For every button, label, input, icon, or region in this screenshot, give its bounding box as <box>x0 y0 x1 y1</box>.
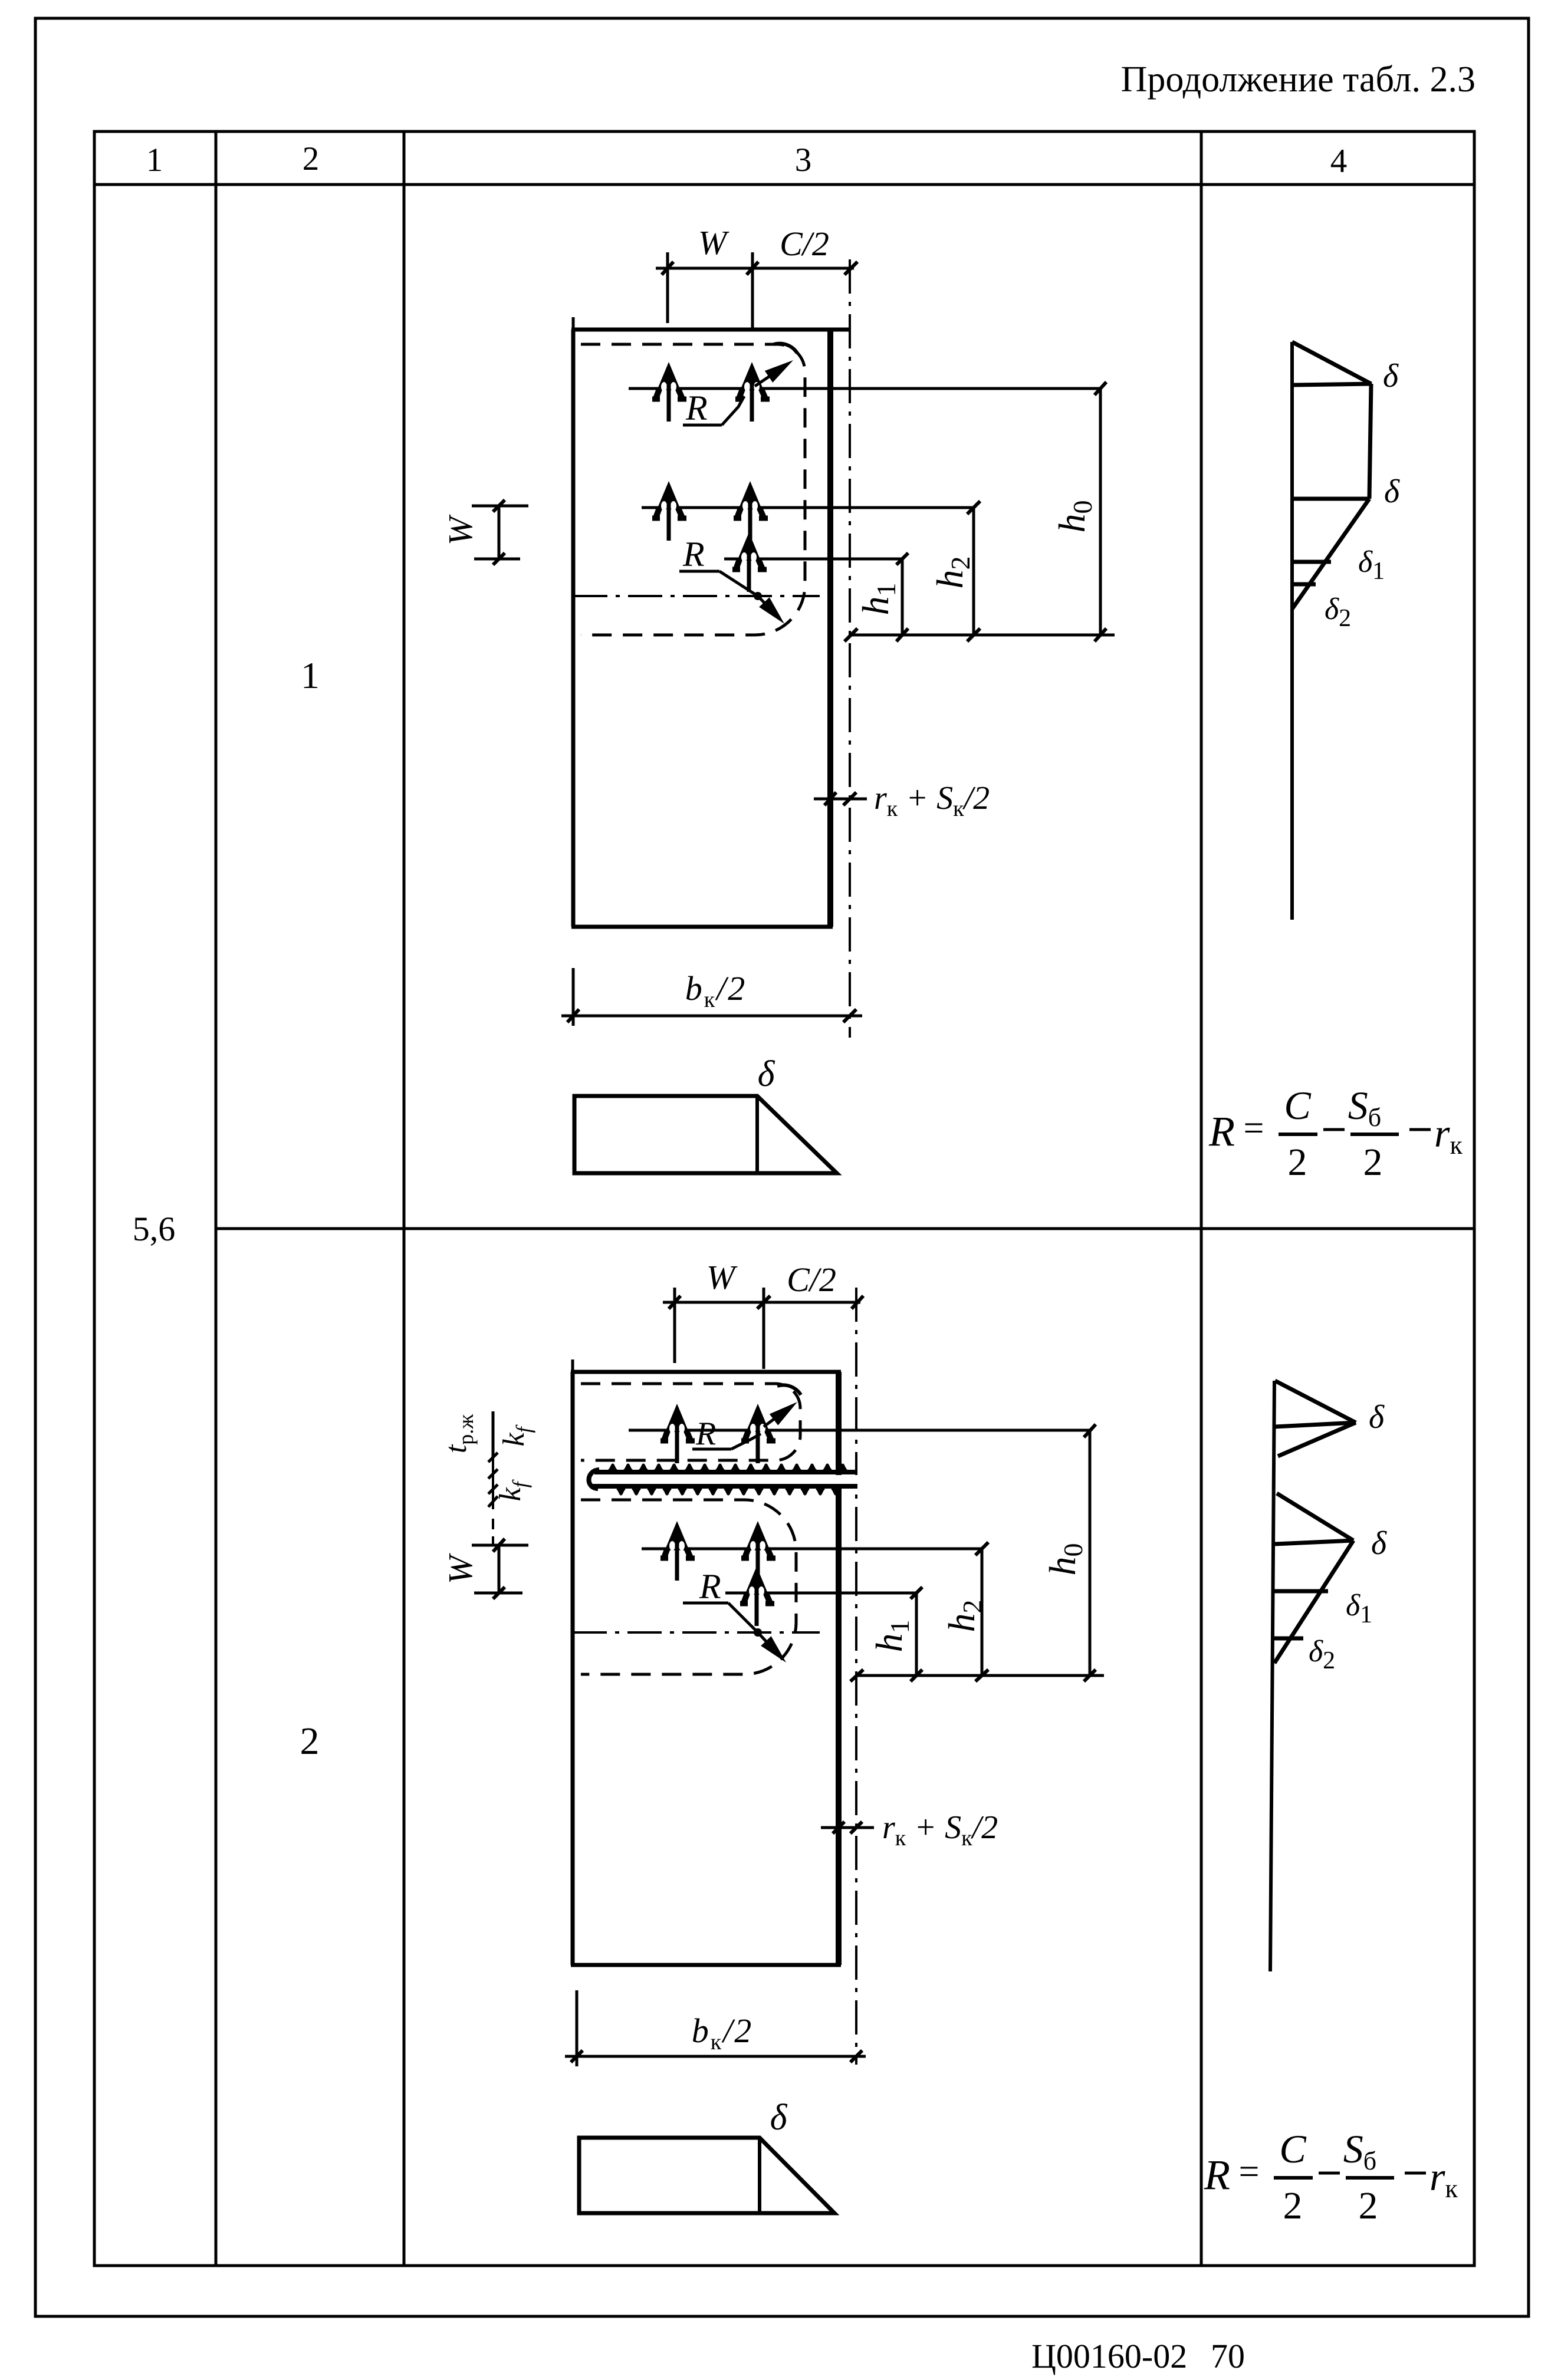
row2 diagram tick d1 <box>1274 1589 1328 1594</box>
row2 rib plate top edge <box>594 1470 857 1474</box>
row2 left W dim line <box>498 1545 501 1593</box>
row2 bk/2 dim line <box>565 2055 866 2058</box>
svg-text:h0: h0 <box>1051 501 1097 533</box>
svg-text:70: 70 <box>1211 2337 1245 2375</box>
row1 diagram tick d1 <box>1292 560 1331 564</box>
row2 diagram triangle1 base <box>1275 1423 1356 1427</box>
svg-text:δ2: δ2 <box>1325 592 1351 632</box>
svg-text:R: R <box>685 389 708 427</box>
row2 centre point dot <box>754 1628 762 1637</box>
row1 R upper underline <box>683 424 722 427</box>
svg-text:kf: kf <box>497 1424 535 1446</box>
row2 weld arrow B2 <box>741 1521 775 1581</box>
row2 rotated fraction bar <box>492 1411 495 1457</box>
table column separator 2|3 <box>403 131 406 2266</box>
row2 corner leader hook <box>777 1385 801 1395</box>
svg-text:4: 4 <box>1330 143 1348 180</box>
svg-text:kf: kf <box>494 1479 532 1501</box>
row2 rib thickness ticks <box>492 1457 494 1509</box>
row2 R lower leader arrowhead <box>761 1636 791 1667</box>
row1 dim extension line left <box>666 252 669 323</box>
row2 h2 dim vertical <box>981 1549 984 1675</box>
row1 column web centerline <box>849 259 851 1038</box>
row1 diagram baseline <box>1290 342 1294 920</box>
row2 R upper underline <box>692 1448 731 1451</box>
row2 bk/2 tick right <box>850 2050 862 2062</box>
row2 rk tick right <box>850 1822 862 1833</box>
svg-text:R: R <box>1204 2151 1230 2198</box>
row2 R lower leader <box>728 1603 781 1658</box>
row1 R lower underline <box>679 570 719 573</box>
row1 column flange edge (thick) <box>827 330 833 927</box>
svg-text:R: R <box>1208 1108 1235 1155</box>
svg-text:W: W <box>698 223 729 262</box>
table row separator <box>216 1227 1474 1230</box>
row1 rk tick left <box>824 792 836 805</box>
row2 tick W left <box>669 1296 681 1309</box>
svg-text:2: 2 <box>300 1720 320 1763</box>
row2 h0 dim vertical <box>1089 1431 1092 1675</box>
svg-text:5,6: 5,6 <box>133 1210 176 1248</box>
row1 dim extension line mid <box>751 252 754 330</box>
svg-text:2: 2 <box>1288 1141 1307 1184</box>
svg-text:W: W <box>441 1553 479 1584</box>
svg-text:h2: h2 <box>941 1600 987 1632</box>
svg-text:δ: δ <box>1371 1525 1387 1562</box>
row2 left W ext bottom <box>474 1592 522 1595</box>
row1 corner leader hook <box>774 344 797 353</box>
row1 R upper leader <box>722 396 744 425</box>
row2 rib plate bottom edge <box>592 1484 857 1489</box>
svg-text:R: R <box>699 1567 721 1606</box>
svg-text:W: W <box>706 1258 738 1296</box>
row2 bk/2 tick left <box>571 2050 583 2062</box>
row2 diagram tick d2 <box>1274 1637 1303 1641</box>
row1 diagram tick d2 <box>1292 582 1316 587</box>
row2 weld line C <box>725 1592 916 1595</box>
row1 R lower leader <box>719 571 777 616</box>
row2 rk tick left <box>833 1822 844 1833</box>
row2 diagram triangle1 lower slant <box>1278 1423 1356 1456</box>
row1 bk/2 dim line <box>561 1015 862 1018</box>
row2 bk/2 ext left <box>576 1990 579 2066</box>
row2 corner leader arrowhead <box>770 1396 801 1425</box>
svg-text:R: R <box>682 535 705 574</box>
svg-text:δ: δ <box>1384 473 1400 510</box>
row1 weld arrow C1 <box>732 532 767 592</box>
row2 tick leader dash <box>492 1519 494 1545</box>
svg-text:=: = <box>1239 2152 1260 2192</box>
row2 dim extension mid <box>763 1288 765 1369</box>
row2 rib weld teeth bottom <box>617 1489 840 1495</box>
row1 weld arrow A1 <box>652 362 686 422</box>
row2 tick W right <box>757 1296 770 1309</box>
svg-text:bк/2: bк/2 <box>685 969 747 1012</box>
svg-text:2: 2 <box>1363 1141 1383 1184</box>
table column separator 1|2 <box>215 131 218 2266</box>
row1 dashed weld outline (rounded right) <box>581 344 805 635</box>
table outer frame <box>94 131 1474 2266</box>
svg-text:rк + Sк/2: rк + Sк/2 <box>882 1809 998 1851</box>
svg-text:W: W <box>441 514 479 545</box>
row1 weld line C <box>724 558 902 561</box>
svg-text:tр.ж: tр.ж <box>439 1414 478 1453</box>
row2 rk tick bar <box>821 1826 874 1829</box>
svg-text:1: 1 <box>146 141 163 179</box>
svg-text:bк/2: bк/2 <box>692 2012 754 2055</box>
svg-text:Sб: Sб <box>1348 1083 1381 1132</box>
row1 plate top edge <box>571 328 851 332</box>
row1 diagram rectangle right edge <box>1369 384 1371 499</box>
row1 weld arrow B1 <box>652 481 686 541</box>
row1 left W dim line <box>498 506 501 559</box>
svg-text:3: 3 <box>795 141 812 179</box>
row2 horizontal centreline <box>573 1631 820 1634</box>
row2 weld arrow A2 <box>741 1404 775 1463</box>
svg-text:C/2: C/2 <box>780 225 829 263</box>
table column separator 3|4 <box>1200 131 1203 2266</box>
svg-text:rк + Sк/2: rк + Sк/2 <box>874 780 990 821</box>
row2 dim line bottom <box>857 1674 1104 1677</box>
svg-text:δ2: δ2 <box>1309 1635 1335 1674</box>
row1 rk tick bar <box>814 798 867 801</box>
svg-text:h1: h1 <box>868 1620 915 1652</box>
row1 diagram rectangle bottom <box>1292 497 1369 501</box>
row1 weld arrow B2 <box>734 481 768 541</box>
row1 bk/2 tick left <box>567 1009 579 1022</box>
svg-text:R: R <box>695 1416 716 1452</box>
row1 h0 dim vertical <box>1099 389 1102 635</box>
row1 horizontal centreline <box>573 595 820 597</box>
row1 tick W right <box>747 262 758 275</box>
row2 weld arrow A1 <box>660 1404 695 1463</box>
svg-text:h1: h1 <box>855 583 901 615</box>
row1 weld section outline <box>574 1096 837 1173</box>
row1 dim line bottom <box>851 634 1115 637</box>
svg-text:δ: δ <box>770 2098 788 2138</box>
row1 diagram top triangle <box>1292 342 1371 385</box>
row1 left W tick top <box>493 500 505 512</box>
svg-text:2: 2 <box>1283 2184 1303 2227</box>
row2 R lower underline <box>683 1602 728 1605</box>
row1 bk/2 ext left <box>572 968 575 1026</box>
svg-text:rк: rк <box>1434 1111 1463 1160</box>
svg-text:C/2: C/2 <box>787 1260 836 1299</box>
row2 left W tick top <box>493 1539 505 1552</box>
row1 weld arrow A2 <box>735 362 770 422</box>
row2 plate bottom edge <box>571 1963 841 1967</box>
svg-text:rк: rк <box>1429 2154 1458 2203</box>
svg-text:1: 1 <box>301 654 320 696</box>
row1 weld section divider <box>755 1096 759 1173</box>
row1 weld line A <box>629 387 1100 390</box>
row2 diagram triangle1 upper slant <box>1275 1381 1356 1423</box>
row1 left W ext top <box>472 505 528 508</box>
svg-text:h0: h0 <box>1041 1543 1088 1576</box>
svg-text:Sб: Sб <box>1343 2126 1376 2175</box>
row2 dim extension left <box>673 1288 676 1363</box>
row1 tick W left <box>662 262 673 275</box>
svg-text:δ: δ <box>1383 358 1399 394</box>
row2 rib left rounded end <box>589 1470 599 1489</box>
row2 tick C/2 right <box>852 1296 863 1309</box>
svg-text:h2: h2 <box>929 557 975 589</box>
svg-text:C: C <box>1279 2126 1306 2171</box>
row2 rib weld teeth top <box>609 1464 847 1470</box>
row2 left W tick bottom <box>493 1587 505 1599</box>
row2 left W ext top <box>472 1544 528 1547</box>
row2 upper dashed weld outline <box>581 1384 800 1460</box>
row2 weld line B <box>642 1548 982 1551</box>
svg-text:=: = <box>1244 1108 1264 1148</box>
row1 left W ext bottom <box>474 558 520 561</box>
row1 plate left edge <box>571 330 576 927</box>
svg-text:2: 2 <box>303 140 320 177</box>
svg-text:2: 2 <box>1359 2184 1378 2227</box>
row1 R lower leader arrowhead <box>759 597 790 628</box>
row1 h1 dim vertical <box>901 559 904 635</box>
row2 plate top edge <box>571 1370 841 1374</box>
row1 rk tick right <box>843 792 856 805</box>
row1 weld line B <box>642 506 974 509</box>
row2 R upper leader <box>731 1434 761 1449</box>
row1 centre point dot <box>754 592 762 600</box>
row2 weld section divider <box>758 2138 761 2213</box>
svg-text:δ1: δ1 <box>1346 1589 1372 1628</box>
svg-text:δ: δ <box>758 1054 775 1094</box>
svg-text:Продолжение табл. 2.3: Продолжение табл. 2.3 <box>1121 60 1475 100</box>
row1 corner leader arrowhead <box>765 354 797 383</box>
row1 diagram lower slant <box>1292 499 1369 609</box>
row2 column web centerline <box>855 1288 857 2065</box>
row2 top dimension line W,C/2 <box>663 1301 860 1304</box>
row2 weld arrow C1 <box>740 1566 774 1626</box>
row2 rib interior (masks flange) <box>596 1475 859 1484</box>
row1 h2 dim vertical <box>972 508 975 635</box>
row2 plate corner stub <box>571 1359 574 1372</box>
row1 top dimension line W,C/2 <box>656 267 854 270</box>
row1 plate corner stub <box>572 317 575 330</box>
row2 column flange edge (thick) <box>836 1372 842 1965</box>
row2 diagram lower slant <box>1274 1540 1353 1663</box>
row2 diagram baseline <box>1270 1381 1274 1971</box>
row1 tick C/2 right <box>844 262 857 275</box>
row2 weld line A <box>629 1429 1090 1432</box>
row1 bk/2 tick right <box>843 1009 856 1022</box>
svg-text:δ: δ <box>1369 1399 1385 1436</box>
row2 plate left edge <box>571 1372 575 1965</box>
table header underline <box>94 183 1474 186</box>
row1 left W tick bottom <box>493 553 505 565</box>
row2 weld section outline <box>579 2138 834 2213</box>
svg-text:Ц00160-02: Ц00160-02 <box>1031 2337 1187 2375</box>
row1 plate bottom edge <box>571 925 833 929</box>
row2 h1 dim vertical <box>915 1593 918 1675</box>
row2 diagram triangle2 upper slant <box>1277 1493 1353 1540</box>
row2 weld arrow B1 <box>660 1521 695 1581</box>
row1 corner-radius leader line <box>755 368 782 386</box>
svg-text:δ1: δ1 <box>1358 545 1385 585</box>
row2 diagram triangle2 base <box>1275 1540 1353 1544</box>
row2 lower dashed weld outline <box>581 1500 796 1674</box>
row2 corner-radius leader <box>764 1410 787 1427</box>
svg-text:C: C <box>1284 1083 1311 1128</box>
